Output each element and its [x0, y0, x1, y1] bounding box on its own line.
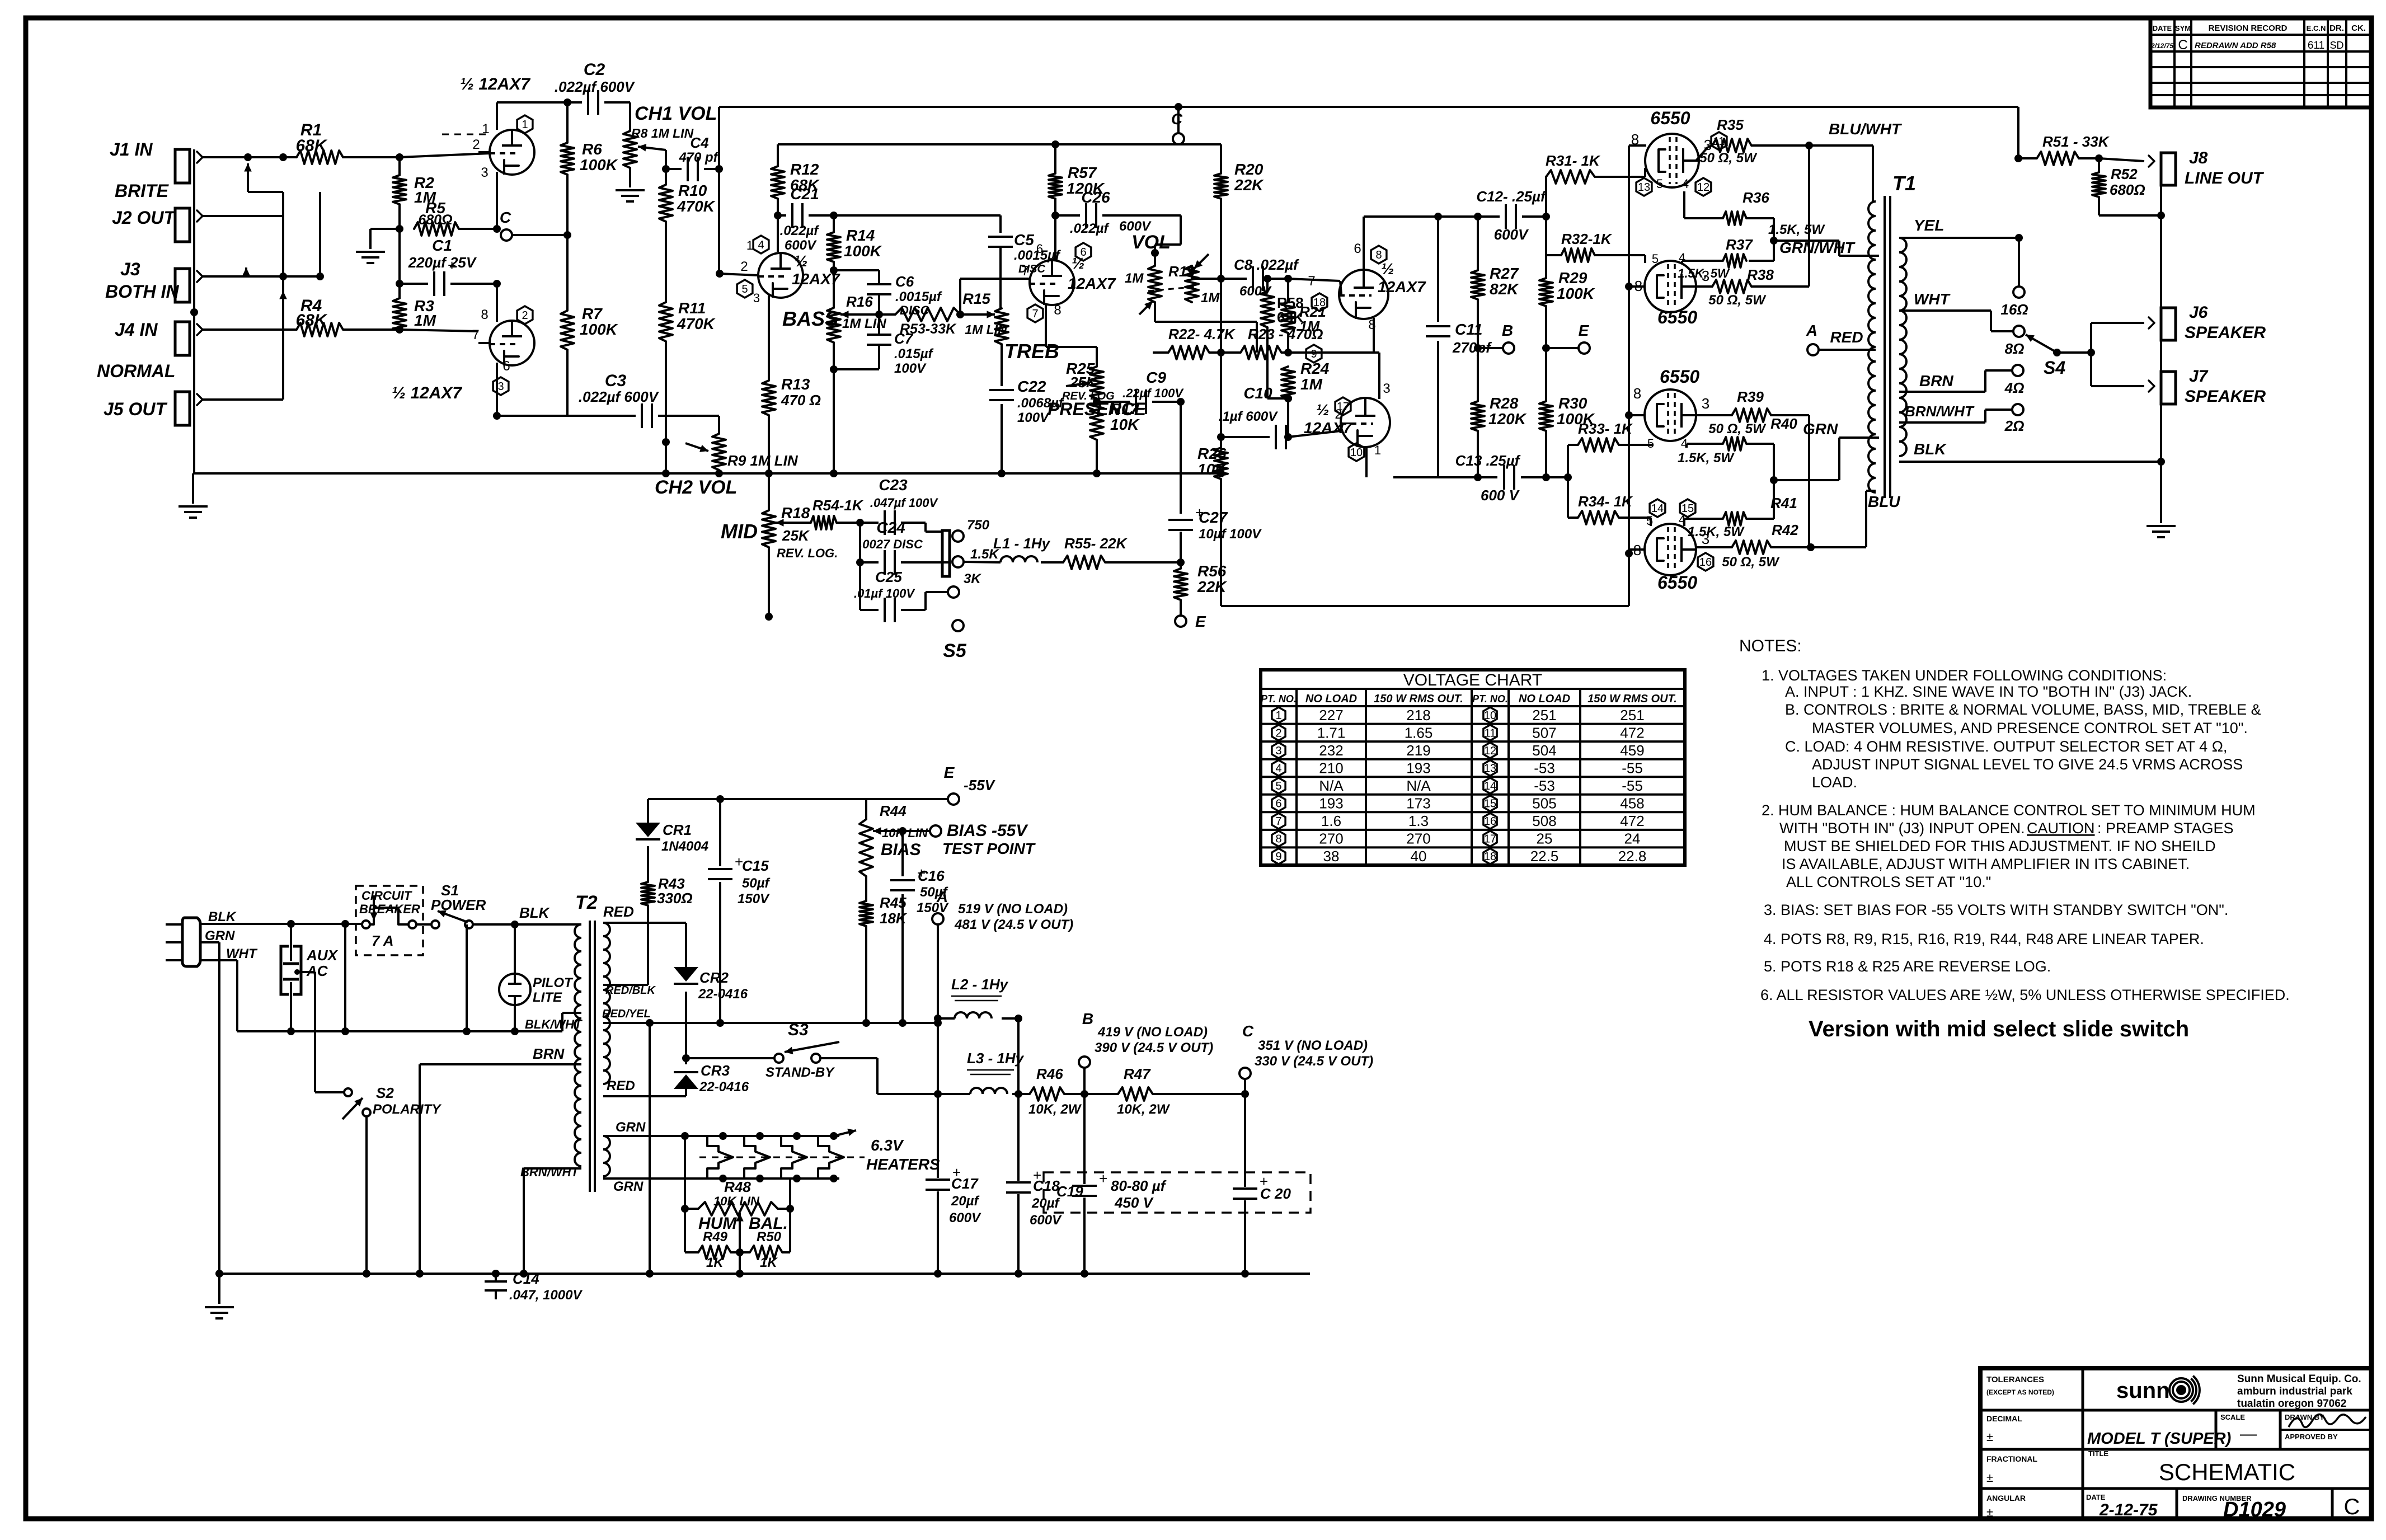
svg-text:SCHEMATIC: SCHEMATIC	[2159, 1459, 2295, 1485]
svg-text:R51 - 33K: R51 - 33K	[2042, 133, 2110, 150]
wire aux parallel	[344, 924, 346, 1031]
svg-text:SCALE: SCALE	[2220, 1413, 2245, 1421]
wire WHT tap	[1899, 309, 1991, 312]
svg-text:.1µf 600V: .1µf 600V	[1219, 409, 1279, 424]
tube V4 half 12AX7	[1339, 270, 1388, 319]
svg-text:TITLE: TITLE	[2088, 1449, 2108, 1458]
svg-text:2Ω: 2Ω	[2004, 417, 2025, 434]
svg-text:600 V: 600 V	[1481, 487, 1520, 504]
svg-text:AC: AC	[306, 962, 328, 979]
svg-text:2: 2	[1275, 727, 1281, 739]
svg-text:5: 5	[1656, 177, 1663, 191]
svg-text:6.3V: 6.3V	[871, 1137, 904, 1154]
capacitor C18 polarized	[1017, 1094, 1020, 1181]
svg-text:8: 8	[1375, 249, 1382, 261]
wire R22 left end	[1152, 351, 1154, 354]
svg-text:25: 25	[1537, 830, 1553, 847]
svg-text:3K: 3K	[964, 571, 981, 586]
svg-text:AUX: AUX	[306, 947, 339, 964]
svg-text:1K: 1K	[760, 1255, 778, 1270]
resistor R1	[297, 151, 343, 164]
svg-text:4: 4	[1682, 177, 1689, 191]
svg-text:100V: 100V	[1017, 410, 1050, 425]
svg-text:611: 611	[2308, 40, 2324, 51]
pot R18 MID	[768, 473, 770, 510]
resistor R50	[789, 1209, 791, 1252]
svg-text:C8 .022µf: C8 .022µf	[1234, 256, 1299, 273]
svg-text:NO LOAD: NO LOAD	[1519, 693, 1570, 705]
svg-text:-53: -53	[1534, 759, 1555, 776]
svg-text:10: 10	[1484, 710, 1496, 722]
wire RED top tap	[603, 922, 686, 924]
svg-text:13: 13	[1638, 181, 1650, 194]
svg-text:82K: 82K	[1490, 280, 1519, 298]
svg-text:R47: R47	[1124, 1065, 1151, 1082]
svg-text:10K: 10K	[1110, 416, 1140, 433]
svg-text:C17: C17	[951, 1175, 979, 1192]
svg-text:100K: 100K	[580, 321, 618, 338]
wire R6-R7	[566, 175, 569, 311]
svg-text:R55- 22K: R55- 22K	[1064, 535, 1128, 552]
svg-text:-55: -55	[1622, 777, 1643, 794]
svg-text:S3: S3	[788, 1021, 809, 1039]
svg-text:R31- 1K: R31- 1K	[1546, 152, 1601, 169]
svg-text:T2: T2	[575, 892, 598, 913]
wire jack sleeve vertical	[2160, 185, 2162, 462]
svg-text:NO LOAD: NO LOAD	[1305, 693, 1357, 705]
svg-text:R46: R46	[1036, 1065, 1063, 1082]
svg-text:+: +	[1099, 1170, 1107, 1187]
svg-text:C23: C23	[879, 476, 908, 494]
svg-text:8Ω: 8Ω	[2005, 340, 2025, 357]
svg-text:450 V: 450 V	[1114, 1194, 1154, 1211]
svg-text:219: 219	[1406, 742, 1430, 759]
terminal E bias	[866, 798, 948, 800]
svg-text:10µf 100V: 10µf 100V	[1199, 527, 1262, 542]
resistor R29	[1545, 217, 1547, 278]
svg-text:10K LIN: 10K LIN	[713, 1194, 760, 1208]
svg-text:½: ½	[1072, 255, 1084, 272]
svg-text:C6: C6	[895, 273, 914, 290]
tube 6550 no3	[1645, 389, 1696, 441]
wire R24 to C10 node	[1287, 398, 1289, 437]
svg-text:PT. NO.: PT. NO.	[1472, 693, 1508, 705]
wire R44 wiper row	[895, 830, 903, 832]
ground R8	[616, 189, 645, 191]
svg-text:±: ±	[1986, 1505, 1993, 1519]
wire R7 to C3 row	[566, 350, 569, 416]
svg-text:R44: R44	[880, 802, 907, 819]
diode CR3	[685, 1089, 687, 1096]
svg-text:C12- .25µf: C12- .25µf	[1476, 188, 1547, 205]
resistor R39	[1696, 414, 1732, 416]
svg-text:6: 6	[1354, 241, 1361, 256]
pot R44 BIAS	[859, 819, 873, 876]
svg-text:GRN: GRN	[1803, 420, 1838, 438]
wire R20 down to C8 node	[1220, 199, 1222, 279]
wire V1a cathode	[496, 172, 498, 229]
resistor R55	[1041, 561, 1063, 564]
svg-text:R14: R14	[846, 227, 875, 244]
svg-text:C 20: C 20	[1260, 1185, 1291, 1202]
jack J5	[175, 392, 190, 425]
svg-text:BRN: BRN	[533, 1045, 565, 1062]
svg-text:POLARITY: POLARITY	[373, 1102, 441, 1117]
resistor R34	[1567, 477, 1569, 518]
svg-text:.047µf 100V: .047µf 100V	[870, 496, 939, 510]
resistor R47	[1084, 1093, 1118, 1095]
svg-text:R37: R37	[1726, 236, 1753, 253]
svg-text:R57: R57	[1068, 164, 1097, 181]
svg-text:R49: R49	[703, 1229, 728, 1245]
resistor R35	[1696, 147, 1708, 161]
transformer T1 secondary	[1899, 238, 1906, 456]
svg-text:210: 210	[1319, 759, 1343, 776]
svg-text:100K: 100K	[1557, 285, 1595, 302]
resistor R54	[811, 516, 837, 529]
svg-text:TEST POINT: TEST POINT	[942, 840, 1036, 857]
pot R48 HUM BAL	[684, 1136, 686, 1209]
resistor R33	[1567, 445, 1569, 477]
svg-text:22K: 22K	[1197, 578, 1227, 595]
svg-text:419 V (NO LOAD): 419 V (NO LOAD)	[1097, 1025, 1208, 1040]
svg-text:18: 18	[1484, 851, 1496, 863]
wire feedback corner	[2017, 107, 2019, 158]
svg-text:R11: R11	[678, 299, 706, 317]
svg-text:R27: R27	[1490, 265, 1519, 282]
wire R18 bottom stub	[768, 547, 770, 613]
svg-text:R33- 1K: R33- 1K	[1578, 420, 1633, 437]
svg-text:C7: C7	[894, 330, 914, 347]
svg-text:38: 38	[1323, 848, 1340, 865]
svg-text:.01µf 100V: .01µf 100V	[854, 586, 915, 600]
wire R16 bottom node	[833, 342, 835, 369]
wire R9 bottom to bus	[718, 470, 720, 473]
resistor R6	[566, 102, 569, 143]
svg-text:68K: 68K	[295, 311, 327, 330]
svg-text:4Ω: 4Ω	[2004, 379, 2025, 396]
svg-text:C: C	[2344, 1495, 2360, 1519]
svg-text:12: 12	[1484, 745, 1496, 757]
svg-text:R22- 4.7K: R22- 4.7K	[1168, 326, 1236, 342]
svg-text:±: ±	[1986, 1471, 1993, 1485]
svg-text:SYM: SYM	[2175, 24, 2191, 32]
pot R15 TREB	[995, 308, 1008, 344]
svg-text:MUST BE SHIELDED FOR THIS ADJU: MUST BE SHIELDED FOR THIS ADJUSTMENT. IF…	[1784, 838, 2216, 854]
svg-text:L2 - 1Hy: L2 - 1Hy	[951, 976, 1009, 993]
svg-text:½: ½	[1316, 401, 1329, 419]
svg-text:15: 15	[1682, 503, 1694, 515]
svg-text:2: 2	[472, 137, 480, 152]
svg-text:600V: 600V	[1494, 226, 1529, 243]
svg-text:½: ½	[795, 252, 807, 270]
inductor L3	[970, 1088, 1007, 1094]
capacitor C2	[567, 101, 582, 104]
svg-text:8: 8	[481, 307, 488, 322]
terminal B supply	[1079, 1057, 1090, 1068]
svg-text:½ 12AX7: ½ 12AX7	[392, 384, 462, 402]
wire R26 to cathode bus	[1220, 479, 1222, 606]
svg-text:R24: R24	[1300, 360, 1330, 377]
svg-text:R50: R50	[757, 1229, 782, 1245]
svg-text:10K, 2W: 10K, 2W	[1028, 1102, 1082, 1117]
svg-text:STAND-BY: STAND-BY	[765, 1065, 835, 1080]
svg-text:R30: R30	[1558, 395, 1587, 412]
svg-text:CK.: CK.	[2351, 24, 2366, 33]
wire BLU tap	[1811, 546, 1866, 548]
svg-text:6550: 6550	[1660, 367, 1699, 387]
svg-text:BOTH IN: BOTH IN	[105, 281, 179, 302]
resistor R30	[1545, 348, 1547, 401]
svg-text:8: 8	[1633, 385, 1641, 402]
testpoint hex 13	[1636, 178, 1652, 196]
svg-text:1.71: 1.71	[1317, 724, 1346, 741]
svg-text:25K: 25K	[1069, 374, 1098, 391]
svg-text:C: C	[2178, 37, 2187, 53]
svg-text:WHT: WHT	[226, 946, 258, 961]
svg-text:2. HUM BALANCE : HUM BALANCE: 2. HUM BALANCE : HUM BALANCE CONTROL SET…	[1762, 802, 2256, 819]
svg-text:R32-1K: R32-1K	[1561, 231, 1613, 247]
wire CR2 column top	[685, 923, 687, 973]
svg-text:22K: 22K	[1234, 176, 1264, 194]
svg-text:RED/BLK: RED/BLK	[605, 984, 656, 997]
svg-text:9: 9	[1275, 851, 1281, 863]
svg-text:.0027 DISC: .0027 DISC	[859, 537, 923, 551]
svg-text:11: 11	[1485, 727, 1496, 739]
terminal B	[1477, 299, 1479, 348]
svg-text:CR3: CR3	[701, 1062, 730, 1079]
ground PSU	[218, 1274, 220, 1304]
wire jack link verticals	[247, 163, 249, 192]
svg-text:sunn: sunn	[2116, 1378, 2170, 1403]
svg-text:600V: 600V	[949, 1210, 981, 1226]
resistor R38	[1696, 285, 1712, 288]
capacitor C22	[989, 389, 1014, 391]
svg-text:470K: 470K	[677, 315, 716, 332]
svg-text:2-12-75: 2-12-75	[2099, 1501, 2158, 1519]
wire V4 cathode down	[1373, 318, 1375, 353]
svg-text:amburn industrial park: amburn industrial park	[2237, 1386, 2352, 1397]
svg-text:BLK/WHT: BLK/WHT	[525, 1017, 583, 1031]
wire V1a grid dashes	[442, 134, 487, 135]
wire YEL tap	[1899, 237, 2019, 239]
pot R25 PRESENCE	[1090, 367, 1103, 398]
wire C8 to V4 grid	[1288, 279, 1340, 281]
svg-text:PT. NO.: PT. NO.	[1261, 693, 1297, 705]
svg-text:LINE OUT: LINE OUT	[2185, 169, 2265, 187]
svg-text:1M: 1M	[1300, 375, 1323, 393]
ground speaker	[2160, 462, 2162, 523]
svg-text:R18: R18	[781, 504, 810, 522]
heater filaments	[707, 1136, 733, 1179]
resistor R23	[1221, 351, 1241, 354]
svg-text:20µf: 20µf	[951, 1194, 980, 1209]
wire PSU ground bus	[219, 1273, 1310, 1275]
wire V2 plate	[777, 215, 779, 252]
wire J4 row	[203, 328, 297, 331]
svg-text:3: 3	[753, 291, 760, 305]
wire R19 wiper to C8 row	[1191, 266, 1193, 279]
svg-text:LITE: LITE	[533, 990, 562, 1005]
svg-text:R41: R41	[1770, 495, 1797, 511]
svg-text:22.8: 22.8	[1618, 848, 1647, 865]
svg-text:470K: 470K	[677, 198, 716, 215]
wire REDYEL to bus	[649, 1023, 651, 1274]
svg-text:6: 6	[1275, 798, 1281, 810]
svg-text:7 A: 7 A	[372, 932, 394, 949]
svg-text:R48: R48	[724, 1179, 751, 1195]
title block	[1980, 1368, 2371, 1519]
svg-text:E: E	[1579, 322, 1590, 339]
inductor L2	[955, 1012, 992, 1018]
svg-text:10: 10	[1350, 447, 1363, 459]
testpoint hex 11	[1711, 132, 1727, 150]
svg-text:R6: R6	[582, 140, 602, 158]
wire 6550no3 cathode	[1629, 414, 1645, 416]
wire AUX AC lead1	[290, 924, 292, 961]
wire R30 to C13 row	[1545, 431, 1547, 477]
svg-text:600V: 600V	[1239, 284, 1272, 299]
svg-text:R16: R16	[846, 293, 873, 310]
wire A vertical	[937, 924, 939, 1094]
svg-text:E: E	[1195, 613, 1206, 630]
svg-text:40: 40	[1411, 848, 1427, 865]
svg-text:68K: 68K	[295, 137, 327, 155]
svg-text:R9 1M LIN: R9 1M LIN	[727, 452, 799, 469]
ground at R5	[356, 251, 385, 253]
svg-text:FRACTIONAL: FRACTIONAL	[1986, 1454, 2037, 1463]
testpoint hex 1	[517, 115, 533, 133]
svg-text:120K: 120K	[1488, 410, 1527, 428]
capacitor C4	[666, 168, 682, 170]
svg-text:SD: SD	[2329, 40, 2343, 51]
pot R19 b	[1185, 266, 1199, 302]
resistor R45	[865, 876, 867, 901]
wire C12 row	[1478, 215, 1500, 218]
svg-text:RED: RED	[1830, 328, 1863, 346]
svg-text:100K: 100K	[844, 242, 882, 260]
svg-text:20µf: 20µf	[1031, 1196, 1060, 1211]
terminal E	[1545, 306, 1547, 348]
svg-text:50 Ω, 5W: 50 Ω, 5W	[1722, 555, 1780, 570]
svg-text:351 V (NO LOAD): 351 V (NO LOAD)	[1258, 1038, 1368, 1053]
S5 contact 3K	[948, 586, 959, 598]
svg-text:251: 251	[1620, 707, 1644, 724]
svg-text:DATE: DATE	[2153, 24, 2172, 32]
switch 16ohm contact	[2018, 238, 2020, 287]
svg-text:CH1 VOL: CH1 VOL	[635, 103, 717, 124]
svg-text:L3 - 1Hy: L3 - 1Hy	[967, 1050, 1025, 1067]
svg-text:C3: C3	[605, 372, 627, 390]
wire BLK/WHT tap	[561, 1013, 563, 1031]
resistor R20	[1220, 144, 1222, 173]
jack J2	[175, 208, 190, 242]
svg-text:12AX7: 12AX7	[1378, 278, 1426, 295]
wire L2 right vert	[1017, 1018, 1020, 1094]
wire B stub	[1083, 1068, 1086, 1094]
wire R8 wiper node	[665, 150, 667, 169]
svg-text:12AX7: 12AX7	[1068, 275, 1116, 292]
svg-text:WHT: WHT	[1914, 290, 1951, 308]
resistor R56	[1180, 562, 1182, 569]
svg-text:2/12/75: 2/12/75	[2150, 42, 2173, 50]
testpoint hex 10	[1349, 443, 1364, 461]
transformer T2 heater winding	[603, 1136, 610, 1176]
svg-text:R52: R52	[2111, 166, 2138, 182]
svg-text:C10: C10	[1243, 384, 1272, 402]
transformer T2 secondary HV	[603, 923, 610, 1084]
svg-text:1: 1	[746, 238, 753, 252]
svg-text:1.5K, 5W: 1.5K, 5W	[1678, 266, 1730, 280]
tube V2 half 12AX7	[758, 253, 803, 298]
wire heater row bottom	[603, 1177, 839, 1180]
wire C24 branch	[859, 523, 861, 562]
wire V1a plate to C2 row	[496, 102, 498, 130]
svg-text:R35: R35	[1717, 116, 1744, 133]
wire mains BLK	[200, 923, 363, 925]
svg-text:.015µf: .015µf	[894, 346, 934, 361]
wire plate supply bus	[778, 143, 1221, 145]
svg-text:220µf 25V: 220µf 25V	[408, 254, 477, 271]
svg-text:100K: 100K	[580, 156, 618, 173]
svg-text:R8 1M LIN: R8 1M LIN	[631, 126, 694, 140]
wire R2-R3 node to C1	[398, 229, 401, 284]
wire R19 bottom join	[1154, 302, 1156, 322]
pot R9 CH2 VOL	[712, 434, 726, 470]
resistor R53	[879, 313, 895, 316]
switch S2 POLARITY	[315, 1091, 344, 1093]
terminal BIAS testpoint	[930, 825, 941, 837]
tube V1b half 12AX7	[490, 321, 534, 365]
wire R14 to bass node	[833, 262, 835, 270]
svg-text:RED/YEL: RED/YEL	[602, 1008, 651, 1020]
capacitor C16 polarized	[901, 831, 904, 876]
svg-text:C. LOAD: 4 OHM RESISTIVE. OU: C. LOAD: 4 OHM RESISTIVE. OUTPUT SELECTO…	[1785, 738, 2227, 755]
svg-text:390 V (24.5 V OUT): 390 V (24.5 V OUT)	[1095, 1040, 1213, 1055]
svg-text:BLU/WHT: BLU/WHT	[1829, 120, 1903, 138]
svg-text:507: 507	[1532, 724, 1556, 741]
testpoint hex 14	[1650, 499, 1665, 517]
wire R17 to bus	[1096, 440, 1098, 473]
capacitor C27 polarized	[1168, 519, 1193, 521]
capacitor C3	[497, 415, 636, 417]
resistor R26	[1220, 437, 1222, 448]
svg-text:IS AVAILABLE, ADJUST WITH AMP: IS AVAILABLE, ADJUST WITH AMPLIFIER IN I…	[1782, 856, 2190, 872]
svg-text:GRN: GRN	[205, 928, 235, 943]
resistor R42	[1696, 546, 1732, 548]
resistor R13	[762, 381, 776, 415]
dashed box C19 C20	[1044, 1172, 1311, 1213]
svg-text:DR.: DR.	[2329, 24, 2344, 33]
svg-text:193: 193	[1406, 759, 1430, 776]
wire R51 to J8	[2099, 158, 2144, 161]
svg-text:1.5K, 5W: 1.5K, 5W	[1688, 524, 1745, 539]
svg-text:80-80 µf: 80-80 µf	[1111, 1177, 1167, 1194]
wire J1 row	[203, 156, 297, 158]
tube V1a half 12AX7	[490, 130, 534, 175]
svg-text:R13: R13	[781, 375, 810, 393]
wire V1b cathode to C3 row	[496, 363, 498, 416]
svg-text:GRN: GRN	[616, 1120, 646, 1135]
wire C11 top tap	[1364, 215, 1438, 218]
svg-text:6550: 6550	[1657, 307, 1697, 327]
wire R20col C8node to C10	[1220, 279, 1222, 437]
svg-text:R12: R12	[790, 161, 819, 178]
svg-text:R42: R42	[1772, 522, 1798, 538]
wire BRN/WHT tap	[1899, 421, 1985, 424]
svg-text:BRN/WHT: BRN/WHT	[520, 1165, 579, 1179]
svg-text:C15: C15	[742, 857, 769, 874]
